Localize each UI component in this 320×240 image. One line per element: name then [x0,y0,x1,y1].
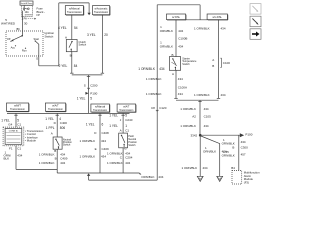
svg-text:P100: P100 [90,91,97,95]
wire 1 ORN/BLK 434 (w/o DSL upper) [218,20,220,99]
fuse block dashed box [21,5,32,16]
svg-text:434: 434 [178,29,183,33]
svg-text:Transmission: Transmission [119,109,134,112]
riser wire up to top feeder [58,3,60,66]
svg-text:1 YEL: 1 YEL [109,124,118,128]
svg-text:C1: C1 [125,128,129,132]
svg-text:434: 434 [178,44,183,48]
option flag w/Manual Transmission (2) [91,104,110,112]
svg-text:434: 434 [125,161,130,165]
svg-text:1 ORN/BLK: 1 ORN/BLK [180,107,196,111]
branch wire 1 YEL 5 to TCIM [15,113,17,127]
wire from splice to grommet P100 [200,134,242,136]
svg-text:C100: C100 [223,61,231,65]
terminal B node [21,35,23,37]
contact Run [25,48,26,49]
icon next-diagram (top right) [250,16,261,27]
svg-text:C400: C400 [60,121,68,125]
wire 1 ORN/BLK 434 to C300 [238,135,240,170]
svg-text:A: A [172,72,174,76]
wire from splice to ground G2 [201,136,220,176]
svg-text:w/ DSL: w/ DSL [172,16,181,19]
svg-text:ORN/BLK: ORN/BLK [222,153,235,157]
wire from fuse down [23,10,25,12]
transmission control interface module dashed box [3,127,24,146]
branch wire 1 YEL 6 [99,113,101,173]
svg-text:Switch: Switch [63,144,71,147]
svg-text:1 ORN/BLK: 1 ORN/BLK [138,67,156,71]
contact Start [35,40,36,41]
svg-text:Transmission: Transmission [48,108,63,111]
svg-text:4 YEL: 4 YEL [58,26,67,30]
wire to connector C200 [88,75,90,114]
svg-text:C408: C408 [102,131,110,135]
svg-text:434: 434 [159,67,165,71]
option flag w/A/T Transmission [45,103,65,111]
lower junction bus [7,112,130,114]
svg-text:BLK: BLK [4,156,10,160]
svg-text:C204: C204 [125,156,133,160]
svg-text:434: 434 [241,140,246,144]
svg-text:ORN/BLK: ORN/BLK [203,149,216,153]
svg-text:1 YEL: 1 YEL [109,114,118,118]
multifunction alarm module dashed box [232,170,242,184]
svg-text:C100B: C100B [178,36,187,40]
svg-text:Transmission: Transmission [93,109,108,112]
svg-text:S: S [84,83,86,87]
svg-text:5: 5 [90,97,92,101]
svg-text:F1: F1 [9,146,13,150]
svg-text:1 ORN/BLK: 1 ORN/BLK [182,166,198,170]
svg-text:S: S [36,56,38,60]
starter temperature switch [169,57,180,71]
svg-text:457: 457 [241,152,246,156]
option flag w/ DSL [167,14,186,20]
svg-text:2 PA: 2 PA [22,18,28,21]
ignition switch wiper arm [12,36,22,41]
svg-text:3 YEL: 3 YEL [87,33,96,37]
svg-text:806: 806 [60,126,66,130]
svg-text:C105: C105 [204,114,212,118]
svg-text:20: 20 [104,33,108,37]
svg-text:Switch: Switch [79,43,87,47]
svg-text:1 ORN/BLK: 1 ORN/BLK [80,155,96,159]
svg-text:434: 434 [204,107,209,111]
icon previous-diagram (top right) [250,4,261,15]
svg-text:A: A [212,58,214,62]
top feeder wire [59,2,89,4]
riser top feeder [157,4,200,6]
svg-text:2 YEL: 2 YEL [59,64,68,68]
grommet P100 [85,92,88,95]
svg-text:1 ORN/BLK: 1 ORN/BLK [146,77,162,81]
svg-text:STRTR: STRTR [25,14,33,16]
option flag w/Automatic Transmission [93,6,110,15]
wire TCIM return to branch 2 [16,168,57,170]
svg-text:1 ORN/BLK: 1 ORN/BLK [80,139,96,143]
svg-text:B4: B4 [231,166,235,170]
TCIM name [24,130,27,132]
contact Off [10,41,11,42]
svg-text:B: B [232,146,234,150]
svg-text:C1: C1 [17,122,21,126]
svg-text:Hot at All Times: Hot at All Times [21,2,33,5]
wire from Start contact to terminal S [35,41,39,66]
svg-text:Off: Off [7,37,11,41]
svg-text:434: 434 [178,77,183,81]
svg-text:Transmission: Transmission [10,108,25,111]
park/neutral position switch [119,133,128,148]
icon forward arrow (top right) [250,29,261,40]
wire to splice S3342 [199,100,201,135]
wire 3 YEL 20 automatic branch [101,15,103,73]
wire from hot feed to fuse [23,5,25,8]
svg-text:Transmission: Transmission [94,11,109,14]
wire 1 ORN/BLK 434 below temp switch [175,70,177,98]
svg-text:1 ORN/BLK: 1 ORN/BLK [107,161,123,165]
link wire to right riser [89,179,158,181]
svg-text:1 ORN/BLK: 1 ORN/BLK [39,161,55,165]
svg-text:1 ORN/BLK: 1 ORN/BLK [194,93,210,97]
branch wire 1 YEL 4 [56,113,58,133]
svg-text:Switch: Switch [128,144,136,147]
clutch switch [66,40,77,52]
wire from splice to ground G1 [199,135,201,176]
wire 1 ORN/BLK 434 from TCIM [15,146,17,170]
bus continuation arrow and link to riser [88,175,90,180]
option flag w/A/T Transmission (2) [117,104,136,112]
svg-text:1 ORN/BLK: 1 ORN/BLK [180,124,196,128]
svg-text:Switch: Switch [182,63,190,66]
svg-text:E: E [95,147,97,151]
option flag w/M/T Transmission [7,103,29,111]
svg-text:1 YEL: 1 YEL [77,97,86,101]
option flag w/o DSL [207,14,227,20]
svg-text:C1: C1 [17,146,21,150]
link between DSL option flags [186,19,208,21]
svg-text:Transmission: Transmission [67,11,82,14]
branch wire 1 YEL 5 (PNP) [122,113,124,131]
riser wire 1 ORN/BLK 434 (right side) [156,5,158,180]
svg-text:ORN/BLK: ORN/BLK [141,175,154,179]
svg-text:B: B [54,149,56,153]
svg-text:1 PPL: 1 PPL [46,126,55,130]
svg-text:ORN/BLK: ORN/BLK [160,29,173,33]
svg-text:(F3): (F3) [244,181,249,185]
svg-text:434: 434 [178,92,183,96]
svg-text:3342: 3342 [191,133,198,137]
svg-text:434: 434 [203,166,208,170]
svg-text:ORN/BLK: ORN/BLK [160,44,173,48]
svg-text:C200: C200 [90,83,98,87]
svg-text:A: A [51,131,53,135]
svg-text:30: 30 [24,22,28,26]
wire crank feed to riser [39,65,59,67]
svg-text:6: 6 [102,122,104,126]
contact Acc [15,45,16,46]
svg-text:54: 54 [74,26,78,30]
svg-text:1 ORN/BLK: 1 ORN/BLK [194,26,210,30]
svg-text:B: B [55,157,57,161]
wire 4 YEL 54 to clutch switch [71,15,73,40]
svg-text:(B): (B) [16,27,20,31]
svg-text:84: 84 [74,64,78,68]
svg-text:Acc: Acc [11,45,16,49]
svg-text:C240: C240 [125,118,133,122]
svg-text:B: B [212,64,214,68]
ground return bus [57,172,139,174]
svg-text:434: 434 [221,93,226,97]
splice junction bus [176,99,219,101]
svg-text:C120: C120 [159,106,167,110]
svg-text:434: 434 [17,154,22,158]
svg-text:Module: Module [27,139,37,143]
svg-text:C100A: C100A [178,85,187,89]
svg-text:434: 434 [204,124,209,128]
wire 1 ORN/BLK 434 below PNP [122,148,124,173]
wire 2 YEL 84 from clutch switch [71,52,73,73]
svg-text:434: 434 [60,161,65,165]
fuse F (STRTR fuse) [23,8,25,10]
svg-text:A: A [120,128,122,132]
svg-text:w/o DSL: w/o DSL [212,16,222,19]
svg-text:434: 434 [222,149,227,153]
svg-text:G4: G4 [8,122,12,126]
grommet P100 flag (right) [240,133,244,137]
svg-text:1 ORN/BLK: 1 ORN/BLK [146,92,162,96]
ignition switch dashed box [6,31,43,56]
svg-text:C300: C300 [241,146,249,150]
svg-text:434: 434 [221,26,226,30]
svg-text:C8: C8 [151,106,155,110]
svg-text:Start: Start [34,37,40,41]
svg-text:A2: A2 [192,114,196,118]
neutral position switch [53,137,62,149]
svg-text:CONN ID: CONN ID [9,131,19,133]
ground G2 [217,176,223,181]
svg-text:1 YEL: 1 YEL [86,122,95,126]
wire 1 ORN/BLK 434 below NPS [56,149,58,173]
TCIM connector face [5,129,22,145]
svg-text:C409: C409 [102,147,110,151]
svg-text:434: 434 [101,139,106,143]
svg-text:434: 434 [158,175,163,179]
junction bus above C200 [72,74,103,76]
svg-text:I/P: I/P [37,13,41,17]
svg-text:Run: Run [22,49,27,53]
svg-text:A: A [65,36,67,40]
svg-text:P100: P100 [245,133,252,137]
option flag w/Manual Transmission [65,6,83,15]
svg-text:B: B [70,54,72,58]
feed continuation arrow (down) [88,3,90,13]
ground G1 [197,176,203,181]
svg-text:1 ORN/BLK: 1 ORN/BLK [39,153,55,157]
svg-text:434: 434 [101,155,106,159]
svg-text:WHT/RED: WHT/RED [1,22,16,26]
svg-text:Switch: Switch [45,34,54,38]
power label Hot At All Times [20,1,33,5]
